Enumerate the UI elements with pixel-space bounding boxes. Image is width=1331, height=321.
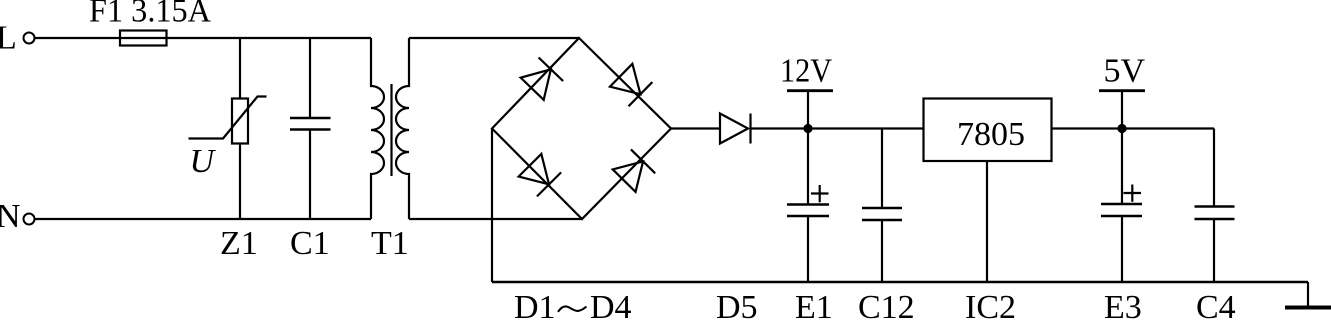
- ground bus: [492, 281, 1308, 284]
- wire 7805 output: [1052, 127, 1215, 129]
- wire Z1 top lead: [239, 38, 241, 99]
- wire E3 bottom lead: [1121, 216, 1123, 282]
- regulator IC2 7805 box: [924, 99, 1052, 162]
- wire L to fuse: [35, 37, 121, 39]
- wire secondary bottom to bridge: [409, 218, 582, 220]
- wire N rail: [35, 218, 372, 220]
- bridge rectifier D1~D4 frame: [492, 38, 671, 219]
- junction node 12V: [803, 124, 812, 133]
- primary winding: [371, 38, 384, 219]
- wire Z1 bottom lead: [239, 144, 241, 220]
- capacitor E1 (electrolytic): [787, 185, 829, 216]
- svg-text:IC2: IC2: [965, 289, 1016, 321]
- capacitor C12: [862, 208, 902, 220]
- svg-text:N: N: [0, 198, 21, 235]
- capacitor C1: [290, 118, 331, 130]
- diode D2 (top-right): [609, 63, 652, 106]
- core: [390, 84, 392, 176]
- wire D5 to 7805 input: [751, 127, 924, 129]
- svg-text:5V: 5V: [1104, 53, 1146, 90]
- svg-text:D5: D5: [716, 289, 758, 321]
- wire E3 top lead: [1121, 129, 1123, 205]
- diode D5: [720, 114, 751, 144]
- svg-text:E1: E1: [795, 289, 833, 321]
- svg-text:12V: 12V: [780, 53, 832, 90]
- svg-text:D4: D4: [590, 289, 632, 321]
- wire C12 top lead: [881, 129, 883, 209]
- ground: [1285, 306, 1331, 310]
- svg-text:T1: T1: [371, 225, 409, 262]
- capacitor E3 (electrolytic): [1101, 185, 1142, 217]
- fuse F1: [120, 31, 167, 46]
- svg-text:Z1: Z1: [220, 225, 258, 262]
- wire IC2 ground pin: [986, 161, 988, 282]
- wire bridge negative to ground bus: [491, 129, 493, 283]
- wire C4 top lead: [1213, 129, 1215, 207]
- wire C4 bottom lead: [1213, 219, 1215, 282]
- svg-text:U: U: [190, 143, 217, 180]
- 12V rail symbol: [787, 91, 833, 129]
- svg-text:C1: C1: [290, 225, 330, 262]
- wire bus to ground: [1307, 282, 1309, 308]
- capacitor C4: [1195, 207, 1235, 220]
- diode D4 (bottom-right): [612, 149, 655, 192]
- transformer T1: [371, 38, 409, 219]
- wire C1 bottom lead: [309, 130, 311, 220]
- svg-text:C12: C12: [858, 289, 915, 321]
- diode D1 (top-left): [520, 57, 563, 100]
- diode D3 (bottom-left): [518, 153, 561, 196]
- node N terminal: [24, 214, 35, 225]
- svg-text:L: L: [0, 20, 17, 57]
- wire bridge positive to D5: [671, 127, 720, 129]
- svg-text:D1: D1: [514, 289, 556, 321]
- svg-text:E3: E3: [1104, 289, 1142, 321]
- 5V rail symbol: [1099, 91, 1145, 129]
- varistor Z1: [189, 97, 267, 144]
- node L terminal: [24, 33, 35, 44]
- wire C12 bottom lead: [881, 220, 883, 282]
- wire fuse to T1 primary top: [167, 37, 372, 39]
- svg-text:F1 3.15A: F1 3.15A: [89, 0, 211, 30]
- wire secondary top to bridge: [409, 37, 579, 39]
- wire E1 bottom lead: [807, 216, 809, 282]
- svg-text:7805: 7805: [957, 116, 1025, 153]
- svg-text:C4: C4: [1196, 289, 1236, 321]
- wire C1 top lead: [309, 38, 311, 118]
- junction node 5V: [1117, 124, 1126, 133]
- secondary winding: [396, 38, 409, 219]
- wire E1 top lead: [807, 129, 809, 205]
